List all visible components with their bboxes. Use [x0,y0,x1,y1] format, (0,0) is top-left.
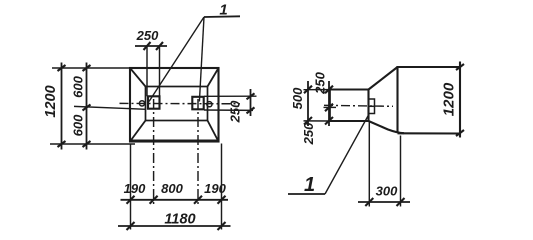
svg-text:250: 250 [136,28,159,43]
svg-text:1: 1 [304,174,315,196]
vertical centerline through left hole [153,99,155,205]
plan view: corner slope edge top-right [208,68,219,87]
bottom dims: right extension line [221,144,223,230]
right dim 250: lower extension line [204,109,253,111]
left dims: top extension line [52,67,130,69]
side view: anchor hole detail divider [369,105,375,107]
right dim 250: tick top [247,93,255,99]
tick 600 top [83,65,91,71]
top dim 250: tick right [156,42,163,50]
tick 500 bottom [304,117,312,125]
plan view: inner square (top face) [146,87,208,121]
side view: stem end vertical line [367,90,369,122]
tick 1200 bottom [58,141,66,147]
small circle left of left hole [139,101,144,106]
top dim 250: dimension line [135,45,167,47]
tick row1 at 153.6 [150,196,158,204]
tick 1200 right top [456,64,464,70]
side view: block bottom edge [398,132,461,134]
svg-text:600: 600 [71,75,86,97]
tick 500 top [304,86,312,94]
tick 600 bottom [83,141,91,147]
svg-text:250: 250 [228,100,243,123]
dim 300: dimension line [358,201,410,203]
anchor hole left (250x250) [148,96,160,108]
right dim 250: upper extension line [204,95,257,97]
small circle right of right hole [207,102,212,107]
anchor hole right (250x250) [192,97,203,110]
side view: lower funnel diagonal with fillet [369,121,405,133]
svg-text:300: 300 [376,184,398,199]
top dim 250: tick left [144,42,151,50]
tick 250 middle [325,104,333,112]
plan view: bottom edge thick stroke [130,140,220,143]
plan view: corner slope edge top-left [130,68,146,87]
side view: upper funnel diagonal [369,67,398,90]
svg-text:1180: 1180 [164,212,195,228]
tick 600 middle [83,105,91,111]
plan view: corner slope edge bottom-left [130,121,146,142]
svg-text:250: 250 [301,122,316,145]
callout 1 shelf line (plan) [204,15,240,18]
right dim 250: tick bottom [247,107,255,113]
tick row1 at 130.5 [127,196,135,204]
svg-text:600: 600 [71,114,86,136]
tick row1 at 198 [194,196,202,204]
svg-text:800: 800 [161,181,183,196]
bottom dim row 190/800/190: dimension line [121,199,229,201]
right dim 250: dimension line [250,89,252,116]
tick 1180 left [127,222,135,230]
callout leader to right hole [199,17,204,102]
tick row1 at 221.5 [218,196,226,204]
plan view: corner slope edge bottom-right [208,121,219,142]
side dims: middle extension line [324,106,337,108]
dim line 600/600 (vertical) [86,63,88,150]
side dims: top extension line [304,89,330,91]
svg-text:1: 1 [219,2,227,19]
dim line 1200 (vertical) [61,63,63,150]
callout leader to stem anchor detail [325,115,369,195]
svg-text:190: 190 [204,181,226,196]
callout 1 shelf line (side view) [288,193,325,195]
side dims: bottom extension line [304,120,330,122]
bottom dims: left extension line [130,144,132,230]
plan view: outer square of footing [130,68,219,142]
svg-text:190: 190 [124,181,146,196]
top dim 250: extension line left [146,46,148,96]
tick 250 bottom [325,117,333,125]
side view: big block rectangle [398,67,461,133]
tick 250 top [325,86,333,94]
svg-text:1200: 1200 [441,82,458,116]
svg-text:250: 250 [312,71,327,94]
vertical centerline through right hole [197,99,199,205]
dim line 500 (vertical) [307,81,309,126]
dim 1200 right: dimension line doubling as block right edge [459,62,461,138]
tick 1180 right [218,222,226,230]
side view: stem rectangle (pedestal) [330,90,369,122]
left dims: bottom extension line [50,143,135,145]
side view: anchor hole detail at stem end [369,99,375,114]
dim 300: left extension line [368,122,370,207]
tick 1200 top [58,65,66,71]
svg-text:500: 500 [290,87,305,109]
dim 300: right extension line [400,136,402,207]
left dims: middle extension line (600/600) [74,106,146,109]
svg-text:1200: 1200 [43,85,59,117]
side view: centerline [324,105,393,106]
tick 1200 right bottom [456,130,464,136]
top dim 250: extension line right [159,46,161,96]
tick 300 right [397,198,405,206]
dim line 250/250 (vertical) [328,81,330,126]
tick 300 left [365,198,373,206]
callout leader to left hole [149,17,204,102]
horizontal centerline of plan [120,102,241,104]
bottom dim 1180: dimension line [118,225,231,227]
